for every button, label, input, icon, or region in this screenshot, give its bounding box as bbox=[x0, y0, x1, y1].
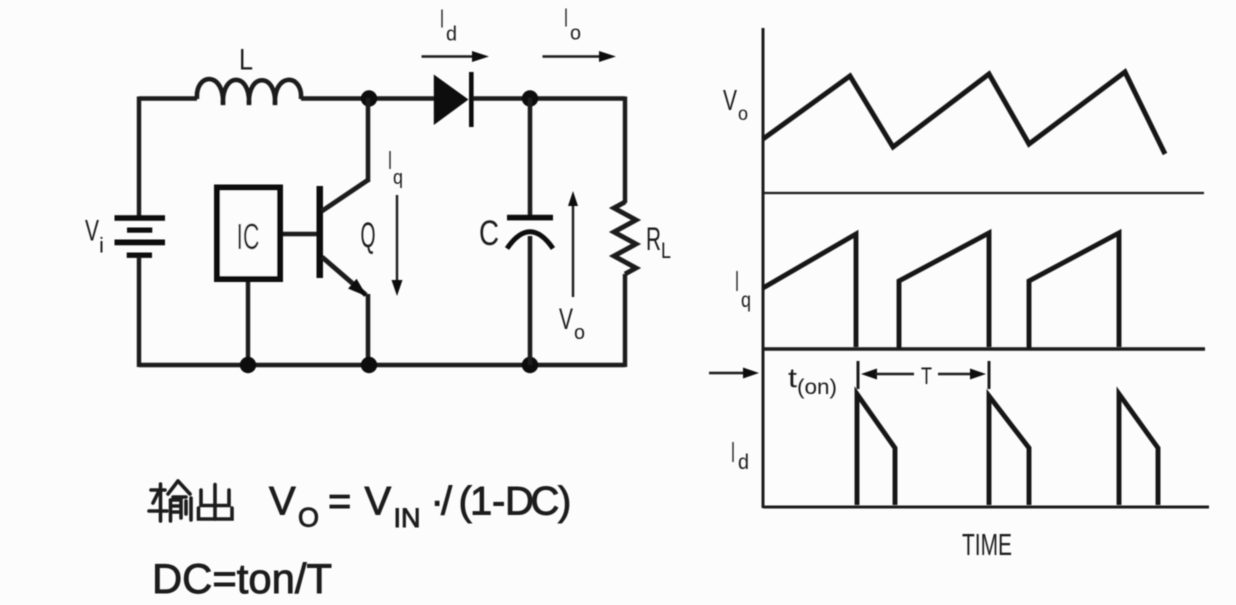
svg-text:C: C bbox=[479, 214, 499, 253]
svg-text:L: L bbox=[661, 238, 671, 263]
voltage arrow Vo bbox=[572, 203, 574, 297]
battery Vi plate long top bbox=[115, 215, 166, 221]
svg-text:O: O bbox=[298, 503, 319, 533]
svg-text:-: - bbox=[492, 480, 505, 524]
bottom bus wire bbox=[139, 363, 625, 367]
node emitter ground bbox=[361, 357, 377, 373]
svg-text:DC=ton/T: DC=ton/T bbox=[152, 555, 332, 602]
capacitor C curved plate bbox=[507, 232, 553, 249]
svg-text:I: I bbox=[388, 145, 392, 175]
capacitor C top plate bbox=[507, 215, 553, 221]
svg-text:V: V bbox=[559, 303, 573, 336]
current arrow Iq bbox=[396, 195, 398, 283]
resistor RL bbox=[614, 202, 636, 274]
battery Vi plate short bottom bbox=[127, 253, 152, 258]
hanzi 出 bbox=[199, 485, 233, 520]
svg-text:I: I bbox=[440, 4, 444, 34]
svg-text:q: q bbox=[393, 167, 403, 189]
svg-text:q: q bbox=[741, 289, 751, 312]
svg-text:TIME: TIME bbox=[962, 527, 1012, 562]
waveform Id pulse 1 bbox=[857, 394, 895, 505]
waveform axis vertical bbox=[762, 28, 765, 508]
node collector junction bbox=[361, 90, 377, 106]
wire top-left segment bbox=[139, 96, 197, 100]
svg-text:IC: IC bbox=[237, 216, 260, 257]
svg-text:V: V bbox=[269, 480, 296, 524]
svg-text:1: 1 bbox=[470, 480, 492, 524]
waveform Iq ramp 2 bbox=[899, 233, 989, 349]
svg-text:o: o bbox=[738, 104, 748, 125]
waveform Id baseline bbox=[763, 506, 1209, 509]
svg-text:T: T bbox=[921, 363, 932, 390]
wire inductor to diode bbox=[301, 96, 435, 100]
waveform Id pulse 2 bbox=[989, 396, 1029, 505]
wire output node to capacitor bbox=[528, 98, 533, 215]
diode D1 bbox=[434, 75, 469, 126]
tick right T bbox=[988, 361, 991, 389]
svg-text:R: R bbox=[646, 221, 661, 257]
svg-text:C: C bbox=[531, 480, 560, 524]
svg-text:d: d bbox=[446, 24, 457, 46]
node output junction bbox=[522, 90, 538, 106]
wire left vertical top bbox=[137, 97, 141, 217]
transistor Q collector stroke bbox=[322, 180, 368, 211]
svg-text:i: i bbox=[99, 235, 104, 258]
svg-text:o: o bbox=[570, 23, 581, 45]
transistor Q emitter stroke bbox=[322, 257, 366, 295]
wire top to resistor RL bbox=[623, 97, 627, 204]
wire diode to output node bbox=[473, 96, 625, 100]
svg-text:L: L bbox=[239, 44, 253, 77]
svg-text:=: = bbox=[328, 480, 351, 524]
svg-text:/: / bbox=[441, 480, 453, 524]
svg-text:d: d bbox=[738, 451, 749, 474]
svg-text:IN: IN bbox=[394, 503, 421, 533]
wire IC to bottom bus bbox=[246, 282, 250, 365]
wire emitter vertical bbox=[366, 294, 371, 367]
transistor Q base bar bbox=[317, 186, 324, 278]
waveform Iq ramp 1 bbox=[763, 234, 856, 347]
waveform Iq baseline bbox=[763, 347, 1205, 351]
hanzi 输 bbox=[149, 481, 191, 521]
dimension arrow right bbox=[938, 373, 972, 376]
node capacitor ground bbox=[522, 357, 538, 373]
separator line bbox=[763, 192, 1204, 194]
IC U1 box bbox=[217, 188, 280, 280]
current arrow Io bbox=[543, 55, 603, 57]
node IC ground bbox=[240, 357, 256, 373]
wire collector vertical bbox=[366, 98, 371, 182]
wire resistor to bottom bus bbox=[623, 274, 627, 367]
svg-text:o: o bbox=[574, 322, 585, 344]
formula V_O = V_IN /(1-DC) bbox=[269, 479, 571, 533]
time zero arrow bbox=[709, 372, 746, 375]
wire capacitor to bottom bus bbox=[528, 236, 533, 365]
waveform Iq ramp 3 bbox=[1029, 233, 1119, 349]
battery Vi plate short bbox=[127, 228, 152, 233]
svg-text:I: I bbox=[731, 437, 735, 469]
svg-text:): ) bbox=[558, 480, 571, 524]
current arrow Id bbox=[422, 55, 476, 57]
svg-text:V: V bbox=[365, 480, 392, 524]
inductor L bbox=[197, 79, 301, 105]
svg-text:V: V bbox=[723, 85, 737, 117]
waveform Vo trace bbox=[763, 72, 1165, 154]
svg-text:Q: Q bbox=[361, 216, 376, 255]
svg-text:V: V bbox=[85, 215, 99, 248]
dimension arrow left bbox=[861, 369, 877, 380]
tick left T bbox=[857, 361, 860, 389]
svg-text:(on): (on) bbox=[797, 376, 837, 399]
svg-text:I: I bbox=[735, 266, 739, 298]
transistor Q emitter arrowhead bbox=[348, 279, 367, 297]
waveform Id pulse 3 bbox=[1119, 394, 1158, 505]
wire battery to bottom bus bbox=[137, 257, 141, 367]
wire IC to transistor base bbox=[283, 232, 317, 236]
svg-text:I: I bbox=[564, 3, 568, 33]
battery Vi plate long bottom bbox=[115, 240, 166, 246]
